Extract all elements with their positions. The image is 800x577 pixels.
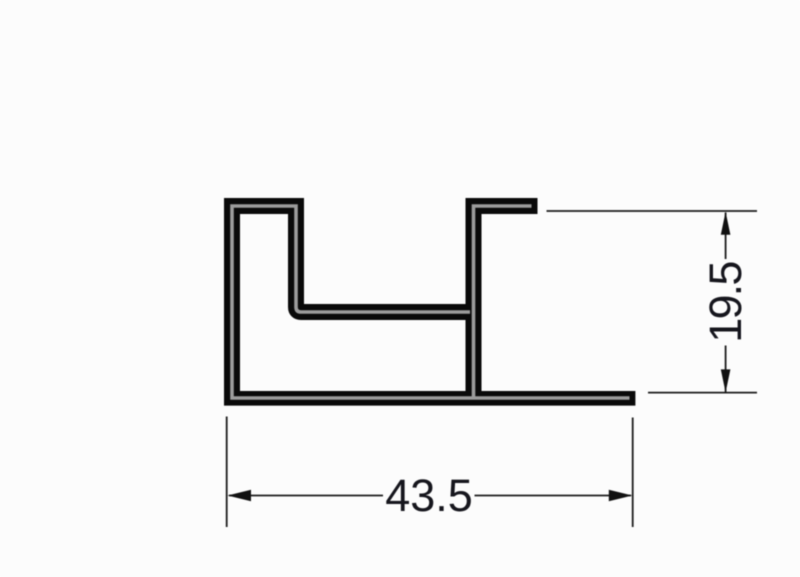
svg-text:43.5: 43.5 bbox=[385, 470, 473, 521]
svg-text:19.5: 19.5 bbox=[700, 262, 751, 343]
